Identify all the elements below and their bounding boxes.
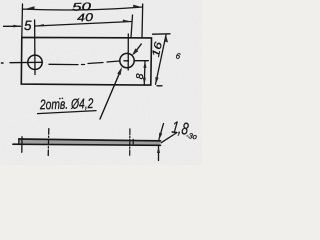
16 dim: bottom extension dash xyxy=(157,85,162,87)
side view tick near left end xyxy=(21,137,23,153)
thickness dim upper line xyxy=(159,124,164,141)
speck at left edge xyxy=(2,62,4,64)
8 dim line xyxy=(143,62,146,85)
arrow: 16 top (up) xyxy=(165,35,168,43)
arrow: 40 right xyxy=(123,20,132,22)
arrow: 5 outside left pointing right xyxy=(13,25,21,28)
second leader stroke at hole 2 top right xyxy=(134,44,141,54)
dimension line 50 xyxy=(23,7,143,10)
right extension line for 50 dim xyxy=(141,4,144,38)
hole 2 xyxy=(120,53,134,67)
arrow: 50 right xyxy=(133,5,142,8)
16 dim line xyxy=(156,35,167,84)
dim 5 outside arrow line xyxy=(4,25,21,27)
plate outline (top view) xyxy=(21,37,151,85)
arrow: 50 left xyxy=(23,6,35,9)
vertical centerline hole 1 / extension line xyxy=(34,20,36,75)
dimension line 40 xyxy=(35,22,131,27)
svg-text:5: 5 xyxy=(24,18,32,33)
arrow: 8 bottom (down) xyxy=(143,78,146,85)
arrow: 16 bottom (down) xyxy=(155,77,158,85)
hole 1 xyxy=(28,55,42,69)
left extension line xyxy=(21,4,24,37)
extension line for 40 dim xyxy=(131,15,133,38)
side view centerline hole2 xyxy=(129,129,131,155)
16 dim: top extension dash xyxy=(153,33,171,35)
side view plate body shading xyxy=(19,140,160,145)
vertical centerline hole 2 xyxy=(127,34,129,70)
side view centerline hole1 xyxy=(47,129,50,157)
svg-text:-3o: -3o xyxy=(186,131,198,141)
arrow: 40 left xyxy=(35,24,44,26)
thickness dim lower line xyxy=(158,146,160,160)
arrow: thickness bottom (up) xyxy=(157,146,160,153)
side view tick hole2 xyxy=(132,139,134,143)
arrow: thickness top (down) xyxy=(159,133,163,141)
side view plate bottom edge xyxy=(13,144,161,145)
svg-text:40: 40 xyxy=(77,12,95,25)
hole callout underline xyxy=(38,111,97,114)
side view plate top edge xyxy=(19,139,161,141)
horizontal centerline xyxy=(10,61,42,63)
svg-text:2отв. Ø4,2: 2отв. Ø4,2 xyxy=(39,95,94,112)
thickness leader to text xyxy=(161,133,177,143)
hole callout leader xyxy=(100,70,121,119)
hole callout diaeresis xyxy=(59,98,61,100)
arrow: leader at hole2 top-right (down-left) xyxy=(132,48,138,55)
side view left end xyxy=(18,139,20,144)
arrow: 8 top (up) xyxy=(143,61,146,68)
arrow: leader into hole2 lower-left xyxy=(117,67,122,75)
